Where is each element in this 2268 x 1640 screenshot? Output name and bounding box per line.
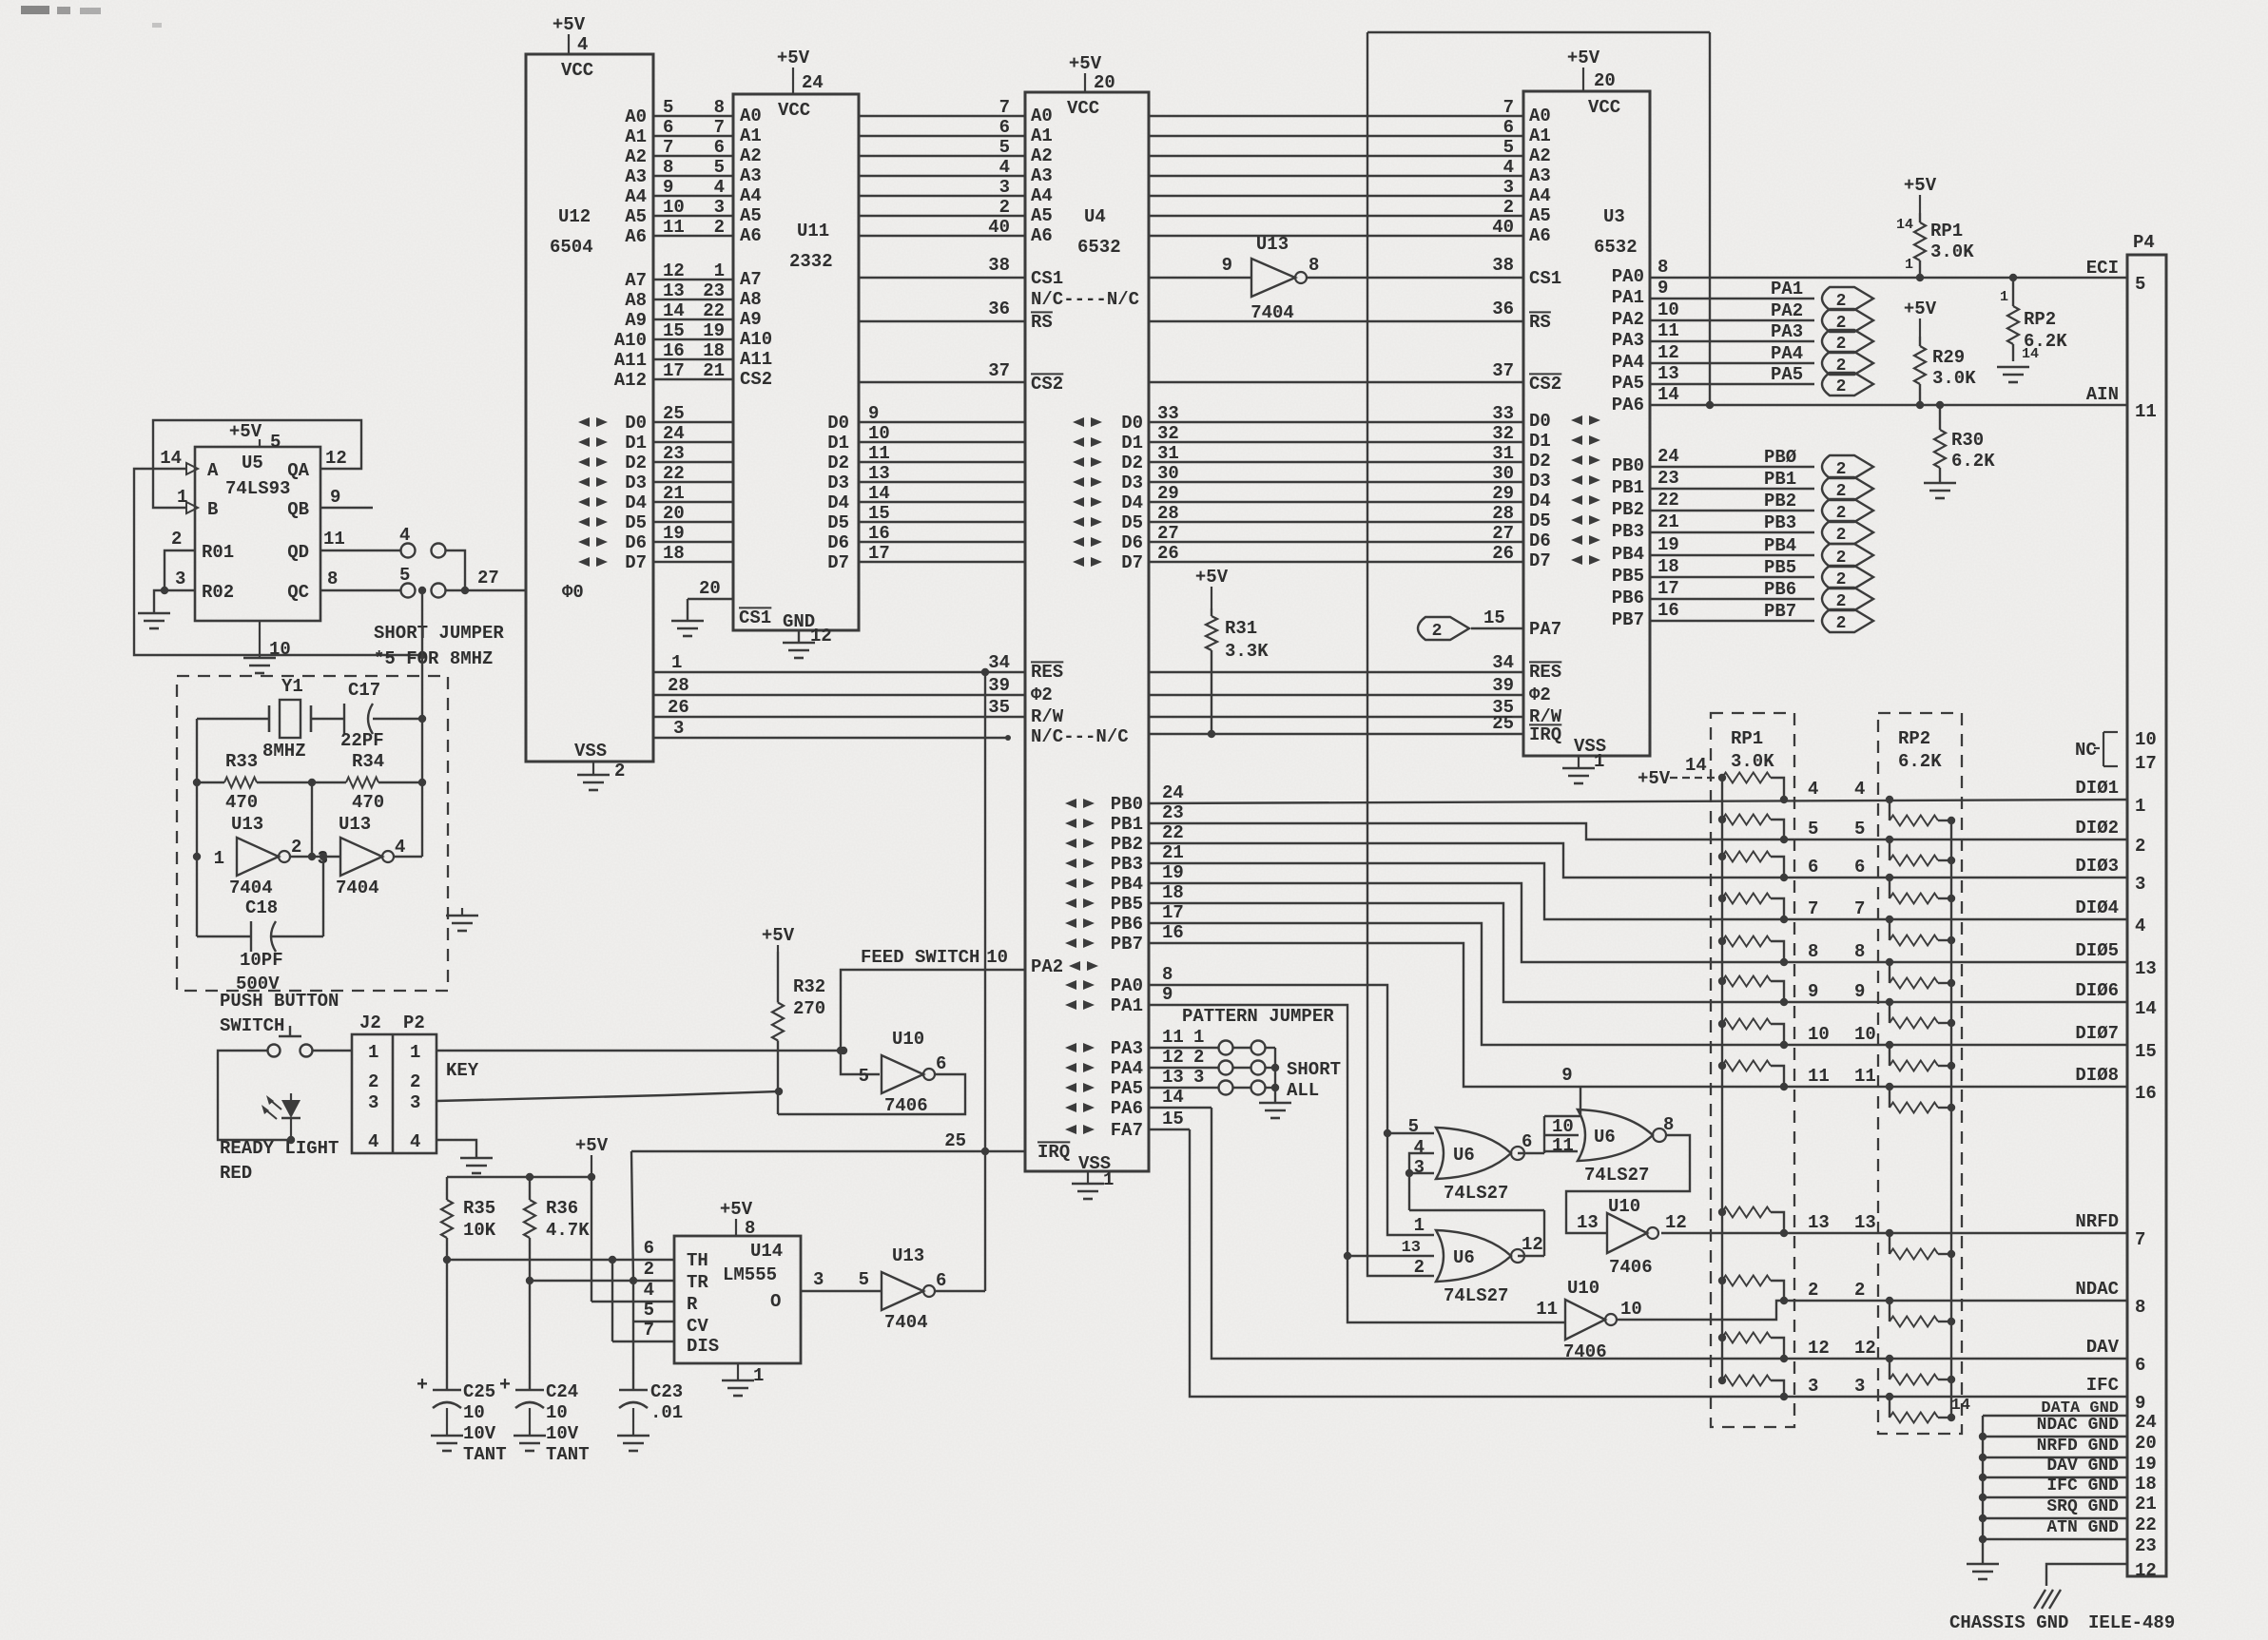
wire U5 QD pin11 to jumper — [320, 529, 400, 550]
wire NRFD row — [1661, 1229, 2127, 1237]
wire NDAC row — [1618, 1297, 2127, 1320]
svg-text:6: 6 — [936, 1270, 946, 1291]
dashed enclosure RP2 — [1878, 713, 1962, 1434]
svg-text:13: 13 — [2135, 958, 2157, 979]
svg-text:2: 2 — [1414, 1257, 1425, 1278]
label DAV — [2086, 1337, 2120, 1358]
svg-text:+5V: +5V — [552, 14, 586, 35]
svg-text:VCC: VCC — [1588, 97, 1620, 118]
svg-text:34: 34 — [988, 652, 1010, 673]
svg-text:21: 21 — [1657, 511, 1679, 532]
wire U3 PB2 with tag — [1650, 490, 1814, 511]
svg-text:1: 1 — [214, 848, 224, 869]
svg-text:A5: A5 — [740, 205, 762, 226]
svg-text:4: 4 — [714, 177, 725, 198]
label RP1 3.0K — [1731, 728, 1774, 772]
label SHORT JUMPER — [374, 623, 504, 669]
resistor RP2 element 8 — [1890, 1087, 1955, 1113]
wire RS CS2 U4 to U3 — [1149, 299, 1523, 382]
svg-text:29: 29 — [1492, 483, 1514, 504]
svg-text:9: 9 — [663, 177, 673, 198]
svg-text:5: 5 — [1503, 137, 1514, 158]
svg-text:9: 9 — [868, 403, 879, 424]
svg-text:A2: A2 — [625, 146, 647, 167]
wire U3 PB7 with tag — [1650, 600, 1814, 622]
ground logic gnd — [1967, 1564, 1999, 1579]
svg-text:10: 10 — [269, 639, 291, 660]
svg-text:10: 10 — [663, 197, 685, 218]
svg-text:2332: 2332 — [789, 251, 833, 272]
resistor RP2 element 3 — [1890, 878, 1955, 904]
svg-text:10: 10 — [1552, 1116, 1574, 1137]
svg-text:A0: A0 — [625, 106, 647, 127]
wire feed switch PA2 pin10 — [837, 947, 1025, 1074]
svg-text:2: 2 — [1836, 377, 1847, 396]
resistor R35 10K — [441, 1177, 496, 1260]
svg-text:18: 18 — [703, 340, 725, 361]
wire PA0 branch to U6a pin5 — [1387, 1132, 1434, 1134]
svg-text:U3: U3 — [1603, 206, 1625, 227]
svg-text:2: 2 — [614, 761, 625, 781]
svg-text:PA2: PA2 — [1031, 956, 1063, 977]
wire data bus D0-D7 U4 to U3 — [1149, 403, 1523, 564]
svg-text:DIØ8: DIØ8 — [2075, 1065, 2119, 1086]
svg-text:10: 10 — [1808, 1024, 1830, 1045]
wire ground bus vertical — [1982, 1416, 1984, 1564]
svg-text:A8: A8 — [740, 289, 762, 310]
svg-text:13: 13 — [1162, 1067, 1184, 1088]
svg-text:A3: A3 — [740, 165, 762, 186]
resistor R33 470 — [224, 751, 258, 813]
svg-text:QC: QC — [287, 582, 309, 603]
svg-text:D0: D0 — [1121, 413, 1143, 434]
svg-text:34: 34 — [1492, 652, 1514, 673]
svg-text:36: 36 — [1492, 299, 1514, 319]
svg-text:4: 4 — [2135, 916, 2145, 936]
svg-text:14: 14 — [1896, 217, 1913, 233]
resistor RP1 element 11 — [1718, 1333, 1784, 1360]
svg-text:4: 4 — [644, 1280, 654, 1301]
inverter U10 7406 (NRFD) — [1607, 1196, 1687, 1278]
svg-text:16: 16 — [868, 523, 890, 544]
svg-text:2: 2 — [410, 1071, 420, 1092]
svg-text:A6: A6 — [1529, 225, 1551, 246]
power +5V RP1 common pin 14 — [1638, 755, 1726, 789]
svg-text:9: 9 — [1808, 981, 1818, 1002]
svg-text:A3: A3 — [1031, 165, 1053, 186]
svg-text:+5V: +5V — [1638, 768, 1671, 789]
wire R/W U4 to U3 pin35 — [1149, 697, 1523, 718]
wire IRQ row to U3 pin25 — [1149, 713, 1523, 734]
svg-text:20: 20 — [663, 503, 685, 524]
svg-text:U5: U5 — [242, 453, 263, 473]
svg-text:U6: U6 — [1453, 1145, 1475, 1166]
svg-text:1: 1 — [753, 1365, 764, 1386]
svg-text:5: 5 — [399, 565, 410, 586]
resistor RP1 3.0K (ECI pullup) — [1896, 213, 1974, 278]
wire chassis gnd pin 12 — [2046, 1564, 2127, 1586]
LED ready light — [262, 1093, 300, 1140]
svg-text:5: 5 — [2135, 274, 2145, 295]
svg-text:8: 8 — [1657, 257, 1668, 278]
svg-text:IRQ: IRQ — [1037, 1142, 1070, 1163]
ground U5 pin 10 — [243, 621, 291, 673]
wire switch to J2 pin1 — [313, 1050, 352, 1052]
svg-text:3: 3 — [1414, 1157, 1425, 1178]
svg-text:23: 23 — [1162, 802, 1184, 823]
svg-text:D4: D4 — [1529, 491, 1551, 511]
svg-text:+: + — [499, 1375, 511, 1397]
svg-text:8: 8 — [714, 97, 725, 118]
svg-text:TANT: TANT — [546, 1444, 590, 1465]
wire osc mid rail — [193, 779, 426, 786]
svg-text:6: 6 — [999, 117, 1010, 138]
svg-text:24: 24 — [2135, 1412, 2157, 1433]
svg-text:LM555: LM555 — [723, 1264, 777, 1285]
svg-text:20: 20 — [2135, 1433, 2157, 1454]
svg-text:10: 10 — [986, 947, 1008, 968]
svg-text:13: 13 — [1402, 1239, 1421, 1257]
svg-text:16: 16 — [2135, 1083, 2157, 1104]
svg-text:9: 9 — [2135, 1393, 2145, 1414]
wire U3 PB5 with tag — [1650, 556, 1814, 578]
NOR gate U6a 74LS27 — [1408, 1116, 1533, 1204]
svg-text:FA7: FA7 — [1111, 1120, 1143, 1141]
svg-text:11: 11 — [663, 217, 685, 238]
wire U3 PA1 with tag — [1650, 278, 1814, 299]
ground at P2 pin4 — [436, 1140, 493, 1173]
svg-text:RP2: RP2 — [1898, 728, 1930, 749]
resistor RP2 element 1 — [1890, 800, 1955, 826]
push button switch S1 — [268, 1026, 313, 1057]
svg-text:D7: D7 — [1529, 550, 1551, 571]
svg-text:6.2K: 6.2K — [1898, 751, 1942, 772]
svg-text:PA7: PA7 — [1529, 619, 1561, 640]
svg-text:+5V: +5V — [777, 48, 810, 68]
svg-text:4: 4 — [410, 1131, 420, 1152]
svg-text:12: 12 — [1854, 1338, 1876, 1359]
wire IRQ from U12 pin3 — [653, 718, 1011, 741]
capacitor C25 10 10V TANT — [417, 1375, 507, 1465]
wire logic ground rows — [1979, 1416, 2127, 1543]
svg-text:A8: A8 — [625, 290, 647, 311]
svg-text:24: 24 — [802, 72, 824, 93]
svg-text:A6: A6 — [625, 226, 647, 247]
wire U6c output — [1518, 1255, 1544, 1257]
wire PB3 to DIO4 — [1149, 842, 2127, 923]
svg-text:13: 13 — [663, 280, 685, 301]
svg-text:RES: RES — [1529, 662, 1561, 683]
svg-text:U10: U10 — [1608, 1196, 1640, 1217]
svg-text:PA0: PA0 — [1612, 266, 1644, 287]
svg-text:PA6: PA6 — [1612, 395, 1644, 415]
svg-text:4: 4 — [577, 34, 588, 55]
svg-text:U6: U6 — [1453, 1247, 1475, 1268]
svg-text:18: 18 — [663, 543, 685, 564]
power +5V for R32 — [762, 925, 795, 952]
svg-text:11: 11 — [1536, 1299, 1558, 1320]
IC U5 74LS93 counter — [186, 447, 320, 621]
wire R row — [591, 1177, 674, 1302]
svg-text:C17: C17 — [348, 680, 380, 701]
svg-text:6: 6 — [1522, 1131, 1532, 1152]
wire IRQ to U4 pin 25 — [631, 1130, 1025, 1151]
svg-text:CS1: CS1 — [739, 608, 771, 628]
wire U3 PA4 with tag — [1650, 342, 1814, 364]
svg-text:14: 14 — [2135, 998, 2157, 1019]
svg-text:3: 3 — [999, 177, 1010, 198]
wire osc left vertical — [193, 719, 201, 860]
labels paddle card pin numbers — [1808, 779, 1876, 1397]
svg-text:19: 19 — [663, 523, 685, 544]
svg-text:4: 4 — [368, 1131, 378, 1152]
svg-text:4: 4 — [999, 157, 1010, 178]
wire pattern jumper common — [1271, 1048, 1279, 1103]
svg-text:8: 8 — [1663, 1114, 1674, 1135]
svg-text:13: 13 — [868, 463, 890, 484]
svg-text:26: 26 — [1492, 543, 1514, 564]
svg-text:U6: U6 — [1594, 1127, 1616, 1148]
svg-text:20: 20 — [1094, 72, 1115, 93]
svg-text:4: 4 — [395, 837, 405, 858]
svg-text:PBØ: PBØ — [1764, 447, 1796, 468]
svg-text:PB1: PB1 — [1612, 477, 1644, 498]
svg-text:A12: A12 — [614, 370, 647, 391]
svg-text:A11: A11 — [740, 349, 772, 370]
svg-text:+5V: +5V — [1195, 567, 1229, 588]
svg-text:2: 2 — [1503, 197, 1514, 218]
svg-text:470: 470 — [352, 792, 384, 813]
svg-text:3.0K: 3.0K — [1731, 751, 1774, 772]
svg-text:+5V: +5V — [1904, 299, 1937, 319]
svg-text:R32: R32 — [793, 976, 825, 997]
svg-text:37: 37 — [1492, 360, 1514, 381]
svg-text:23: 23 — [1657, 468, 1679, 489]
svg-text:A4: A4 — [1529, 185, 1551, 206]
wire osc node2 — [290, 782, 340, 860]
wire CS1 from U4 to U13 input pin 9 — [1149, 255, 1514, 278]
svg-text:D6: D6 — [625, 532, 647, 553]
svg-text:14: 14 — [868, 483, 890, 504]
wire U5 QC pin8 to jumper — [320, 569, 400, 590]
label RP2 6.2K — [1898, 728, 1942, 772]
svg-text:1: 1 — [1193, 1027, 1204, 1048]
svg-text:12: 12 — [325, 448, 347, 469]
svg-text:CS2: CS2 — [1529, 374, 1561, 395]
svg-text:RS: RS — [1529, 312, 1551, 333]
svg-text:KEY: KEY — [446, 1060, 479, 1081]
svg-text:C18: C18 — [245, 897, 278, 918]
wire CV row — [633, 1300, 674, 1322]
inverter U10 7406 (NDAC) — [1536, 1278, 1642, 1362]
wire DAV row from PA6 — [1212, 1108, 2127, 1362]
svg-text:DIØ2: DIØ2 — [2075, 818, 2119, 839]
wire top loop to U6c pin2 — [1367, 32, 1710, 1276]
svg-text:1: 1 — [2135, 796, 2145, 817]
svg-text:CS2: CS2 — [740, 369, 772, 390]
svg-text:PB4: PB4 — [1111, 874, 1143, 895]
wire U5 R01 pin2 to R02 — [165, 529, 195, 590]
svg-text:QA: QA — [287, 460, 309, 481]
svg-text:3: 3 — [2135, 874, 2145, 895]
svg-text:Φ0: Φ0 — [562, 582, 584, 603]
svg-text:11: 11 — [868, 443, 890, 464]
svg-text:8: 8 — [327, 569, 338, 589]
svg-text:RP1: RP1 — [1930, 221, 1963, 241]
svg-text:2: 2 — [2135, 836, 2145, 857]
svg-text:DAV GND: DAV GND — [2046, 1457, 2119, 1476]
wire AIN PA6 line to P4 — [1650, 384, 2127, 409]
wire IRQ to TR and C23 — [631, 1151, 633, 1390]
svg-text:2: 2 — [171, 529, 182, 550]
wire ECI PA0 line to P4 — [1650, 257, 2127, 281]
svg-text:32: 32 — [1157, 423, 1179, 444]
svg-text:*5 FOR 8MHZ: *5 FOR 8MHZ — [374, 648, 493, 669]
svg-text:D5: D5 — [827, 512, 849, 533]
wire U3 PA5 with tag — [1650, 363, 1814, 385]
svg-text:D0: D0 — [1529, 411, 1551, 432]
svg-text:21: 21 — [1162, 842, 1184, 863]
ground RP2 ECI — [1997, 367, 2029, 382]
net tag 2 PB4 — [1822, 544, 1873, 568]
svg-text:A9: A9 — [625, 310, 647, 331]
svg-text:PB6: PB6 — [1111, 914, 1143, 935]
svg-text:22PF: 22PF — [340, 730, 384, 751]
svg-text:7406: 7406 — [884, 1095, 928, 1116]
wire PA1 to U6c pin13 and U10b — [1149, 984, 1564, 1322]
svg-text:SRQ GND: SRQ GND — [2046, 1497, 2119, 1516]
labels DIO1-DIO8 — [2075, 778, 2119, 1086]
wire U13 output pin 8 to U3 CS1 — [1307, 277, 1523, 279]
svg-text:3: 3 — [1854, 1376, 1865, 1397]
svg-text:D3: D3 — [625, 473, 647, 493]
svg-text:74LS27: 74LS27 — [1584, 1165, 1649, 1186]
svg-text:1: 1 — [671, 652, 682, 673]
svg-text:6: 6 — [1808, 857, 1818, 878]
wire bus A0-A6 U4 to U3 — [1149, 97, 1523, 238]
label AIN — [2086, 384, 2119, 405]
capacitor C24 10 10V TANT — [499, 1375, 590, 1465]
svg-text:38: 38 — [988, 255, 1010, 276]
svg-text:74LS93: 74LS93 — [225, 478, 290, 499]
capacitor C18 10PF 500V — [236, 897, 283, 994]
svg-text:12: 12 — [1657, 342, 1679, 363]
resistor R29 3.0K — [1914, 337, 1976, 405]
inverter U13 7404 (timer) — [882, 1245, 946, 1333]
svg-text:270: 270 — [793, 998, 825, 1019]
wire U3 PB0 with tag — [1650, 446, 1814, 468]
svg-text:C24: C24 — [546, 1381, 578, 1402]
svg-text:U12: U12 — [558, 206, 591, 227]
pattern jumper pads PA3 PA4 PA5 — [1149, 1027, 1275, 1095]
svg-text:5: 5 — [663, 97, 673, 118]
label SHORT ALL — [1287, 1059, 1341, 1101]
svg-text:14: 14 — [1657, 384, 1679, 405]
wire U3 PB3 with tag — [1650, 511, 1814, 533]
svg-text:3: 3 — [813, 1269, 824, 1290]
svg-text:+5V: +5V — [1567, 48, 1600, 68]
svg-text:PUSH BUTTON: PUSH BUTTON — [220, 991, 339, 1012]
wire DIS row — [612, 1260, 674, 1341]
svg-text:3.0K: 3.0K — [1930, 241, 1974, 262]
svg-text:R31: R31 — [1225, 618, 1257, 639]
svg-text:D1: D1 — [1121, 433, 1143, 453]
resistor RP2 element 4 — [1890, 919, 1955, 946]
svg-text:A4: A4 — [1031, 185, 1053, 206]
svg-text:9: 9 — [1162, 984, 1173, 1005]
wire RES U4 to U3 pin34 — [1149, 652, 1523, 673]
svg-text:1: 1 — [368, 1042, 378, 1063]
svg-text:20: 20 — [699, 578, 721, 599]
svg-text:7404: 7404 — [336, 878, 379, 898]
svg-text:CV: CV — [687, 1316, 708, 1337]
svg-text:U13: U13 — [339, 814, 371, 835]
svg-text:TH: TH — [687, 1250, 708, 1271]
svg-text:Y1: Y1 — [281, 676, 303, 697]
svg-text:SWITCH: SWITCH — [220, 1015, 284, 1036]
svg-text:12: 12 — [1808, 1338, 1830, 1359]
svg-text:PB0: PB0 — [1111, 794, 1143, 815]
svg-text:PB7: PB7 — [1612, 609, 1644, 630]
svg-text:33: 33 — [1492, 403, 1514, 424]
svg-text:1: 1 — [1594, 751, 1604, 772]
svg-text:A1: A1 — [1529, 125, 1551, 146]
power +5V at U3 pin 20 — [1567, 48, 1616, 91]
svg-text:PA3: PA3 — [1612, 330, 1644, 351]
resistor RP2 element 10 — [1890, 1301, 1955, 1327]
svg-text:A10: A10 — [740, 329, 772, 350]
svg-text:7404: 7404 — [1250, 302, 1294, 323]
net tag 2 PA7 — [1418, 608, 1523, 641]
resistor RP2 element 7 — [1890, 1045, 1955, 1071]
wire U3 PB6 with tag — [1650, 578, 1814, 600]
svg-text:7: 7 — [1854, 898, 1865, 919]
resistor RP1 element 12 — [1718, 1376, 1784, 1398]
svg-text:PA0: PA0 — [1111, 975, 1143, 996]
svg-text:RS: RS — [1031, 312, 1053, 333]
label NDAC — [2075, 1279, 2119, 1300]
svg-text:.01: .01 — [650, 1402, 683, 1423]
svg-text:U13: U13 — [1256, 234, 1289, 255]
wire IFC row from PA7 — [1190, 1129, 2127, 1400]
svg-text:PA5: PA5 — [1771, 364, 1803, 385]
svg-text:DIØ7: DIØ7 — [2075, 1023, 2119, 1044]
ground at U11 GND pin 12 — [783, 626, 832, 658]
wire PA0 to U6 gates — [1149, 964, 1434, 1235]
svg-text:9: 9 — [1854, 981, 1865, 1002]
chassis ground symbol — [2034, 1590, 2061, 1609]
label FEED SWITCH — [861, 947, 979, 968]
svg-text:DIØ4: DIØ4 — [2075, 897, 2119, 918]
svg-text:6: 6 — [1503, 117, 1514, 138]
svg-text:O: O — [770, 1291, 781, 1312]
svg-text:14: 14 — [2022, 346, 2039, 362]
svg-text:7404: 7404 — [884, 1312, 928, 1333]
svg-text:A5: A5 — [625, 206, 647, 227]
connector J2 P2 — [352, 1013, 436, 1153]
svg-text:24: 24 — [663, 423, 685, 444]
svg-text:A9: A9 — [740, 309, 762, 330]
svg-text:IFC: IFC — [2086, 1375, 2119, 1396]
svg-text:NDAC GND: NDAC GND — [2037, 1416, 2120, 1435]
svg-text:25: 25 — [663, 403, 685, 424]
net tag 2 PA3 — [1822, 330, 1873, 354]
svg-text:8: 8 — [663, 157, 673, 178]
svg-text:10: 10 — [2135, 729, 2157, 750]
svg-text:17: 17 — [868, 543, 890, 564]
svg-text:D6: D6 — [1529, 531, 1551, 551]
svg-text:A1: A1 — [625, 126, 647, 147]
